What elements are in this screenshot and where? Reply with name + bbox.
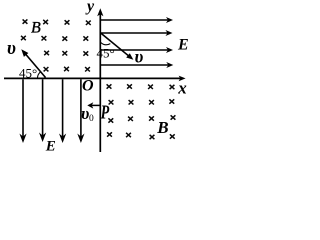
x-axis bbox=[4, 76, 186, 82]
quadrant I angle arc bbox=[101, 43, 111, 45]
particle initial velocity arrow v0 (points left from y-axis) bbox=[87, 102, 100, 108]
svg-text:υ: υ bbox=[7, 39, 16, 59]
quadrant II B-field crosses bbox=[21, 19, 91, 71]
y-axis bbox=[97, 8, 103, 152]
quadrant III E-field arrow 3 (down) bbox=[59, 79, 66, 143]
svg-text:P: P bbox=[100, 100, 110, 123]
quadrant II velocity arrow v (45 deg up-left) bbox=[21, 49, 45, 77]
quadrant IV B-field crosses bbox=[107, 84, 176, 139]
svg-text:E: E bbox=[45, 138, 56, 154]
quadrant II angle arc bbox=[38, 72, 41, 78]
quadrant III E-field arrow 4 (down) bbox=[77, 79, 84, 143]
svg-text:x: x bbox=[177, 78, 187, 97]
quadrant I E-field arrow 2 bbox=[101, 30, 173, 36]
svg-text:0: 0 bbox=[89, 114, 94, 124]
quadrant I E-field arrow 4 bbox=[101, 62, 173, 68]
svg-text:y: y bbox=[85, 0, 95, 15]
quadrant I E-field arrow 1 bbox=[101, 17, 173, 23]
quadrant III E-field arrow 2 (down) bbox=[39, 79, 46, 142]
quadrant I E-field arrow 3 bbox=[101, 47, 173, 53]
svg-text:45°: 45° bbox=[97, 45, 115, 60]
svg-text:45°: 45° bbox=[19, 66, 37, 81]
svg-text:O: O bbox=[82, 77, 94, 94]
svg-text:υ: υ bbox=[135, 46, 144, 66]
svg-text:E: E bbox=[177, 36, 189, 53]
quadrant III E-field arrow 1 (down) bbox=[19, 79, 26, 143]
svg-text:B: B bbox=[31, 19, 41, 36]
quadrant I velocity arrow v (45 deg down-right from y-axis) bbox=[101, 33, 133, 60]
svg-text:B: B bbox=[156, 118, 168, 137]
